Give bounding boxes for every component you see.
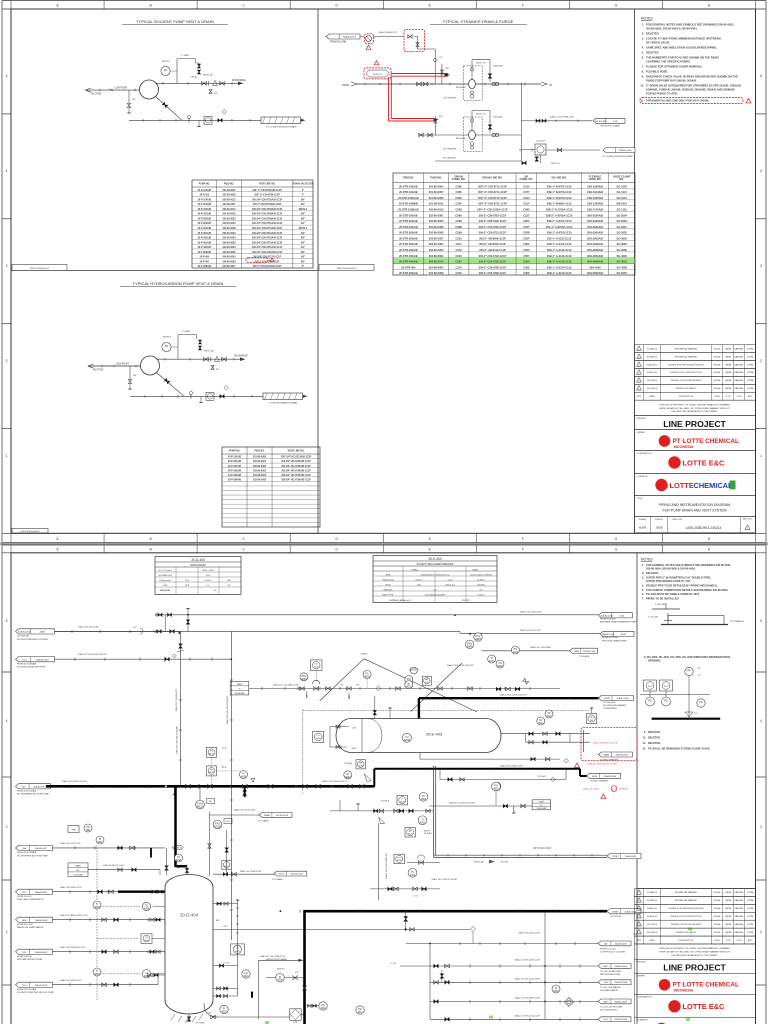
red cloud in pump table row 16 xyxy=(246,258,268,263)
svg-text:20A-80-2104: 20A-80-2104 xyxy=(602,633,615,636)
svg-text:4054: 4054 xyxy=(144,909,150,911)
page 2 drawing border frame xyxy=(11,553,756,1024)
strainer diamond symbol bottom right xyxy=(565,998,574,1007)
svg-text:NOTE 8: NOTE 8 xyxy=(163,337,172,339)
svg-text:C005: C005 xyxy=(456,202,463,206)
svg-text:15-JAN-24: 15-JAN-24 xyxy=(647,891,658,894)
svg-text:REVISED AS MARKED: REVISED AS MARKED xyxy=(675,899,698,902)
svg-text:TO 20-L-20B WASTE: TO 20-L-20B WASTE xyxy=(600,986,621,989)
svg-text:20A-80-0008: 20A-80-0008 xyxy=(615,1000,628,1003)
green tick marks xyxy=(688,928,692,931)
svg-text:TG: TG xyxy=(498,662,502,665)
svg-text:C057: C057 xyxy=(523,225,530,229)
svg-text:203-80-0004: 203-80-0004 xyxy=(222,237,236,240)
svg-text:FOR N2 PURGE TO ATM.: FOR N2 PURGE TO ATM. xyxy=(646,92,678,96)
svg-text:4008: 4008 xyxy=(277,980,283,982)
svg-text:G: G xyxy=(615,547,618,551)
svg-text:C058: C058 xyxy=(523,265,530,269)
svg-text:20-80-888: 20-80-888 xyxy=(235,693,246,695)
svg-text:JYKIM: JYKIM xyxy=(747,356,754,358)
svg-text:20B-2"-HC-111-1C1P: 20B-2"-HC-111-1C1P xyxy=(520,630,541,632)
svg-text:-0.35: -0.35 xyxy=(448,579,454,581)
svg-text:TI: TI xyxy=(421,819,424,822)
flare ref line upper xyxy=(209,814,259,816)
svg-text:FC: FC xyxy=(365,673,369,676)
svg-text:HSLIM: HSLIM xyxy=(714,388,721,390)
hydrocarbon drain header xyxy=(263,393,303,400)
svg-text:200"-3/4"-HC-6731A/B-1C1P: 200"-3/4"-HC-6731A/B-1C1P xyxy=(281,456,312,459)
svg-text:1/2": 1/2" xyxy=(340,685,344,687)
svg-text:OPE: OPE xyxy=(185,585,190,587)
flare header line xyxy=(482,650,570,652)
svg-text:20-P-201A/B: 20-P-201A/B xyxy=(228,460,242,463)
svg-text:204-80-0002: 204-80-0002 xyxy=(222,241,236,244)
svg-text:SOLVENT REFINING COLUMN: SOLVENT REFINING COLUMN xyxy=(17,639,48,641)
drain sight glass box xyxy=(204,116,212,124)
svg-text:PI: PI xyxy=(99,838,102,841)
svg-text:200"-2"-C50-1100A-1C1P: 200"-2"-C50-1100A-1C1P xyxy=(477,208,508,212)
svg-text:C057: C057 xyxy=(523,219,530,223)
spec break on line xyxy=(140,628,143,634)
svg-text:NOTE: NOTE xyxy=(279,874,286,876)
svg-text:LI: LI xyxy=(145,972,147,975)
svg-text:20H-2034A/B: 20H-2034A/B xyxy=(587,225,603,229)
svg-text:20B-1"-N-6703-1C10: 20B-1"-N-6703-1C10 xyxy=(547,190,572,194)
svg-text:C014: C014 xyxy=(523,184,530,188)
svg-text:20-STR-100A/B: 20-STR-100A/B xyxy=(399,190,418,194)
spectacle blind closed xyxy=(251,992,253,998)
svg-text:ISSUED FOR HAZOP: ISSUED FOR HAZOP xyxy=(675,387,697,390)
svg-text:20H-3008A/B: 20H-3008A/B xyxy=(587,248,603,252)
svg-text:THIS DWG IS PROPERTY OF CLIENT: THIS DWG IS PROPERTY OF CLIENT. THE INFO… xyxy=(659,947,730,950)
svg-text:4051: 4051 xyxy=(97,842,103,844)
svg-text:203-2"-AB-9110-1C1P: 203-2"-AB-9110-1C1P xyxy=(479,248,506,252)
PI 4009 instrument xyxy=(419,792,428,801)
svg-text:401B: 401B xyxy=(497,666,503,668)
svg-text:C157: C157 xyxy=(523,213,530,217)
svg-text:C060: C060 xyxy=(523,208,530,212)
svg-text:20B-1"-N-1703A-1C10: 20B-1"-N-1703A-1C10 xyxy=(546,208,573,212)
red revision highlight pipe path xyxy=(391,73,448,75)
svg-text:AF12: AF12 xyxy=(209,771,215,774)
svg-text:20H-4008: 20H-4008 xyxy=(589,265,601,269)
thick feed drop from suction bus to drum xyxy=(174,786,177,867)
hc bottom drain line xyxy=(130,395,263,397)
svg-text:A288: A288 xyxy=(592,775,598,778)
svg-text:202-80-0008: 202-80-0008 xyxy=(222,228,236,230)
ref arrow W9 thick suction bus xyxy=(16,784,51,789)
svg-text:20-E-403: 20-E-403 xyxy=(428,557,441,561)
svg-text:200-3/4"-C50-6709A/B-1C1P: 200-3/4"-C50-6709A/B-1C1P xyxy=(252,217,283,220)
svg-text:C06B: C06B xyxy=(455,225,462,229)
svg-text:NOTES:: NOTES: xyxy=(641,17,654,21)
svg-text:ID x T-T (mm): ID x T-T (mm) xyxy=(158,570,171,572)
svg-text:TSB: TSB xyxy=(71,829,76,831)
svg-text:SANGMC: SANGMC xyxy=(734,931,744,934)
svg-text:STRAINER FILLING LINE ONLY FOR: STRAINER FILLING LINE ONLY FOR 20-P-100A… xyxy=(646,99,710,103)
svg-text:SUCTION DRUM: SUCTION DRUM xyxy=(600,1009,617,1011)
svg-text:SG-3006: SG-3006 xyxy=(616,242,627,246)
svg-text:C0H-1614A/B: C0H-1614A/B xyxy=(587,190,603,194)
svg-text:MTS VAPORIZING DRUM: MTS VAPORIZING DRUM xyxy=(17,958,42,961)
svg-text:20A-1 1/2"-WG2-: 20A-1 1/2"-WG2- xyxy=(583,788,600,791)
svg-text:20H-2034A/B: 20H-2034A/B xyxy=(587,213,603,217)
ref box DWG 200-80-004-1 xyxy=(12,265,67,271)
svg-text:4001: 4001 xyxy=(235,951,241,953)
thick riser to vessel top xyxy=(418,698,420,718)
svg-text:FI: FI xyxy=(555,987,558,990)
svg-text:4052: 4052 xyxy=(144,940,150,942)
TANK N2 supply box xyxy=(230,681,249,695)
svg-text:BY VENDOR: BY VENDOR xyxy=(443,158,456,160)
svg-text:NOTE 8: NOTE 8 xyxy=(162,61,171,63)
svg-text:PIPING TO BE INSTALLED:: PIPING TO BE INSTALLED: xyxy=(646,597,679,601)
svg-text:20A-1 1/2"-SO-1114-PP: 20A-1 1/2"-SO-1114-PP xyxy=(175,688,178,711)
svg-text:1"-VENT: 1"-VENT xyxy=(182,331,191,333)
ref arrow 20A-80-2009 from solvent drum pump xyxy=(16,657,55,662)
svg-text:JYKIM: JYKIM xyxy=(747,892,754,894)
svg-text:PG: PG xyxy=(699,701,703,704)
svg-text:19-JUN-20: 19-JUN-20 xyxy=(647,380,658,382)
svg-text:SURFACE AREA (m2): SURFACE AREA (m2) xyxy=(389,599,411,602)
svg-text:20A-4"-FL-1203-1C1P: 20A-4"-FL-1203-1C1P xyxy=(234,808,256,811)
svg-text:TI: TI xyxy=(491,657,494,660)
thick suction bus line xyxy=(46,785,374,788)
svg-text:OWNER: OWNER xyxy=(637,432,646,434)
svg-text:200-80-0012: 200-80-0012 xyxy=(429,208,444,212)
svg-text:C056: C056 xyxy=(456,184,463,188)
PI 4024 instrument xyxy=(408,868,417,877)
thick vent bus2 xyxy=(305,910,608,913)
svg-text:FI: FI xyxy=(223,1008,226,1011)
svg-text:15-JAN-24: 15-JAN-24 xyxy=(647,347,658,350)
N2 PCV valve red-clouded xyxy=(366,36,372,42)
svg-text:9.: 9. xyxy=(644,730,646,734)
page 2 notes column divider xyxy=(636,553,638,1024)
svg-text:NOTE 12: NOTE 12 xyxy=(173,847,183,849)
min flow bypass line xyxy=(259,959,303,961)
svg-text:20-STR-100BA/B: 20-STR-100BA/B xyxy=(398,208,419,212)
svg-text:P&IDS FOR PUMP 20-P-100A/B, 20: P&IDS FOR PUMP 20-P-100A/B, 200A/B. xyxy=(646,79,697,83)
svg-text:TO 20-D-307 MTS VAP: TO 20-D-307 MTS VAP xyxy=(600,1005,623,1008)
svg-text:20A-1 1/2"-BWH-1223-1C1P: 20A-1 1/2"-BWH-1223-1C1P xyxy=(60,914,88,917)
spectacle blind xyxy=(188,118,190,123)
svg-text:200-3/4"-HC-6733A/B-1C1P: 200-3/4"-HC-6733A/B-1C1P xyxy=(281,465,311,468)
svg-text:200-3/4"-C50-6712A/B-1C1P: 200-3/4"-C50-6712A/B-1C1P xyxy=(252,232,283,235)
svg-text:NOTE 5: NOTE 5 xyxy=(277,968,286,970)
svg-text:STB-0008: STB-0008 xyxy=(456,87,466,89)
svg-text:SANGMC: SANGMC xyxy=(734,899,744,902)
svg-text:C098: C098 xyxy=(456,219,463,223)
strainer 2 bypass loop xyxy=(471,111,473,131)
svg-text:20-STR-100HA/B: 20-STR-100HA/B xyxy=(398,196,419,200)
revision table xyxy=(635,345,756,353)
page 1 drawing border frame xyxy=(11,9,756,533)
svg-text:10%: 10% xyxy=(352,728,356,730)
svg-text:20A-80-2001: 20A-80-2001 xyxy=(33,785,46,788)
svg-text:APP.: APP. xyxy=(748,939,753,942)
svg-text:REV: REV xyxy=(637,940,642,942)
svg-text:20A-80-0008: 20A-80-0008 xyxy=(35,919,48,922)
svg-text:20-STR-300A/B: 20-STR-300A/B xyxy=(399,248,418,252)
svg-text:1.: 1. xyxy=(642,563,644,567)
svg-text:3: 3 xyxy=(6,264,8,268)
svg-text:NOTE 2A: NOTE 2A xyxy=(204,350,214,353)
svg-text:FLEXIBLE HOSE.: FLEXIBLE HOSE. xyxy=(646,70,668,74)
svg-text:CH'D: CH'D xyxy=(736,396,742,398)
svg-text:OUTER PIPE DESIGN CODE IS "CD": OUTER PIPE DESIGN CODE IS "CD". xyxy=(646,579,692,583)
svg-text:FROM 20-P-406: FROM 20-P-406 xyxy=(602,637,619,639)
svg-text:20A-1 1/2"-CA-1382-1C1B: 20A-1 1/2"-CA-1382-1C1B xyxy=(273,684,299,687)
svg-text:FQ: FQ xyxy=(210,769,213,771)
thick segment into vessel xyxy=(118,891,165,893)
svg-text:C215: C215 xyxy=(456,271,463,275)
strainer 1 bypass loop xyxy=(471,60,473,80)
svg-text:20-P-404: 20-P-404 xyxy=(200,256,210,259)
svg-text:2: 2 xyxy=(760,930,762,934)
svg-text:VAPORIZING DRUM: VAPORIZING DRUM xyxy=(600,973,620,976)
svg-text:204-80-0008: 204-80-0008 xyxy=(429,271,444,275)
svg-text:PUMP NO.: PUMP NO. xyxy=(229,450,241,452)
svg-text:20H-4003A/B: 20H-4003A/B xyxy=(587,254,603,258)
double jacketed pipe to flare xyxy=(434,854,607,856)
hc vent stub xyxy=(200,396,202,402)
svg-text:201-80-0011: 201-80-0011 xyxy=(223,204,237,206)
svg-text:DELETED.: DELETED. xyxy=(646,32,660,36)
svg-text:FROM 20-L-30: FROM 20-L-30 xyxy=(17,896,32,898)
svg-text:20-STR-300A/B: 20-STR-300A/B xyxy=(399,242,418,246)
svg-text:4: 4 xyxy=(760,169,762,173)
svg-text:SUCTION: SUCTION xyxy=(93,370,104,372)
svg-text:COVERING THE SPECIFIC PUMPS.: COVERING THE SPECIFIC PUMPS. xyxy=(646,60,691,64)
svg-text:JHKIM: JHKIM xyxy=(725,916,732,918)
svg-text:4004A: 4004A xyxy=(404,739,411,742)
svg-text:ISSUED FOR CONSTRUCTION: ISSUED FOR CONSTRUCTION xyxy=(671,372,702,374)
svg-text:3/4": 3/4" xyxy=(301,251,305,254)
svg-text:34.04 x 3000 x 25NOS: 34.04 x 3000 x 25NOS xyxy=(470,574,492,576)
vent valves with caps xyxy=(194,59,196,63)
svg-text:DCN: DCN xyxy=(726,940,731,942)
svg-text:TO FLARE: TO FLARE xyxy=(579,655,590,658)
svg-text:2.: 2. xyxy=(642,32,644,36)
svg-text:SANGMC: SANGMC xyxy=(734,379,744,382)
svg-text:LINE PROJECT: LINE PROJECT xyxy=(663,419,726,429)
svg-text:72R82: 72R82 xyxy=(612,911,619,913)
svg-text:20H-5000A/B: 20H-5000A/B xyxy=(587,271,603,275)
svg-text:4023: 4023 xyxy=(493,789,499,791)
svg-text:194.2/-0.4: 194.2/-0.4 xyxy=(445,584,455,586)
svg-text:B.A.: B.A. xyxy=(222,765,227,769)
strainer unit 2 vendor dashed box xyxy=(463,117,482,151)
svg-text:REV. NO.: REV. NO. xyxy=(743,519,753,521)
AE 4006 boxed instrument xyxy=(405,828,416,838)
svg-text:NOTE 10: NOTE 10 xyxy=(551,163,561,165)
svg-text:OUTER PIPE 6" IN DIAMETER (2"x: OUTER PIPE 6" IN DIAMETER (2"x6" DOUBLE … xyxy=(646,575,711,579)
svg-text:202-80-0008: 202-80-0008 xyxy=(429,225,444,229)
svg-text:C054: C054 xyxy=(523,260,530,264)
check valve and block valve xyxy=(202,81,207,85)
valve row line upper xyxy=(330,810,434,812)
svg-text:TO 20-D-30 MP FEED: TO 20-D-30 MP FEED xyxy=(600,971,622,973)
svg-text:LOW POINT: LOW POINT xyxy=(116,363,129,365)
svg-text:20-P-403A/B: 20-P-403A/B xyxy=(198,251,212,254)
svg-text:5: 5 xyxy=(760,74,762,78)
svg-text:FLANGE FOR STRAINER COVER REMO: FLANGE FOR STRAINER COVER REMOVAL. xyxy=(646,65,703,69)
svg-text:THE WRITTEN PERMISSION OF THE: THE WRITTEN PERMISSION OF THE OWNER. xyxy=(671,411,718,413)
svg-text:FV: FV xyxy=(539,719,543,722)
svg-text:20A-80-0003: 20A-80-0003 xyxy=(35,984,48,987)
svg-text:240/190: 240/190 xyxy=(477,584,486,586)
svg-text:20B-1"-A-0120-1C10: 20B-1"-A-0120-1C10 xyxy=(547,260,572,264)
FO paddle flag xyxy=(379,817,385,824)
svg-text:3/4": 3/4" xyxy=(132,99,136,101)
svg-text:204-80-0004: 204-80-0004 xyxy=(429,265,444,269)
svg-text:20A-80-0005: 20A-80-0005 xyxy=(615,942,628,945)
svg-text:1/2": 1/2" xyxy=(208,1013,212,1015)
svg-text:4005: 4005 xyxy=(241,777,247,779)
svg-text:SG-3008: SG-3008 xyxy=(616,248,627,252)
NOTE 11 hexagon red-clouded xyxy=(366,70,389,77)
svg-text:FROM 20-P-407: FROM 20-P-407 xyxy=(600,619,617,621)
svg-text:REVISED AS MARKED: REVISED AS MARKED xyxy=(675,355,698,358)
svg-text:TO HYDROCARBON DRAIN: TO HYDROCARBON DRAIN xyxy=(269,402,298,405)
svg-text:13.5/F.V.: 13.5/F.V. xyxy=(477,579,486,581)
svg-text:2100 x 3200: 2100 x 3200 xyxy=(202,570,215,572)
svg-text:JHKIM: JHKIM xyxy=(725,892,732,894)
svg-text:MATERIAL: MATERIAL xyxy=(160,589,171,592)
svg-text:12.: 12. xyxy=(642,747,646,751)
riser with capped vent valves xyxy=(164,615,166,632)
red clouded WRC header detail xyxy=(581,728,637,761)
svg-text:PG: PG xyxy=(694,713,697,715)
svg-text:C033: C033 xyxy=(523,248,530,252)
svg-text:204-80-0004: 204-80-0004 xyxy=(222,246,236,249)
svg-text:VOLUME (m3): VOLUME (m3) xyxy=(158,575,172,577)
N 4016 instrument xyxy=(220,1005,228,1013)
svg-text:20B-1"-N-6904-1C10: 20B-1"-N-6904-1C10 xyxy=(547,202,572,206)
refrigeration baseline xyxy=(652,718,721,720)
svg-text:F: F xyxy=(522,547,524,551)
svg-text:PUMP NO.: PUMP NO. xyxy=(199,183,211,185)
svg-text:TYPICAL HYDROCARBON PUMP VENT: TYPICAL HYDROCARBON PUMP VENT & DRAIN xyxy=(133,281,224,286)
svg-text:DWN: DWN xyxy=(714,940,720,942)
svg-text:1 1/2": 1 1/2" xyxy=(391,963,397,965)
svg-text:FQ: FQ xyxy=(244,972,248,975)
svg-text:20-P-204A/B: 20-P-204A/B xyxy=(198,227,212,230)
svg-text:200"-2"-C50-6706-1C1P: 200"-2"-C50-6706-1C1P xyxy=(254,195,280,197)
svg-text:202-80-0005: 202-80-0005 xyxy=(429,219,444,223)
strainer 1 body oval on line xyxy=(469,79,476,88)
svg-text:DATE: DATE xyxy=(649,939,655,942)
svg-text:20A-1 1/2"-SO-1114-1C1P-PP: 20A-1 1/2"-SO-1114-1C1P-PP xyxy=(78,653,107,656)
left instrument column xyxy=(84,824,92,832)
svg-text:TO WRC HEADER: TO WRC HEADER xyxy=(590,780,609,783)
svg-text:PP: PP xyxy=(687,670,691,673)
svg-text:20-STR-400A/B: 20-STR-400A/B xyxy=(399,260,418,264)
svg-text:200-4"-C50-6704A/B-1C1P: 200-4"-C50-6704A/B-1C1P xyxy=(253,203,282,206)
svg-text:T2P BRANCH: T2P BRANCH xyxy=(730,620,744,623)
svg-text:TO WRC HEADER: TO WRC HEADER xyxy=(600,758,619,761)
svg-text:20B-1"-A-0111-1C10: 20B-1"-A-0111-1C10 xyxy=(547,242,572,246)
svg-text:LOTTE E&C: LOTTE E&C xyxy=(683,1002,726,1011)
left vertical with label xyxy=(378,823,380,900)
svg-text:203-80-0007: 203-80-0007 xyxy=(429,236,444,240)
ref arrow 20A-80-2008 line to solvent refining column xyxy=(16,629,55,634)
svg-text:TO 20-F-401: TO 20-F-401 xyxy=(17,636,30,638)
svg-text:PROJECT: PROJECT xyxy=(637,962,648,964)
svg-text:8.: 8. xyxy=(642,70,644,74)
svg-text:C059: C059 xyxy=(523,271,530,275)
svg-text:HSLIM: HSLIM xyxy=(714,364,721,366)
svg-text:NOTE 9: NOTE 9 xyxy=(299,209,308,211)
pump discharge line xyxy=(156,82,244,84)
svg-text:200"-2"-C50-6715-1C1P: 200"-2"-C50-6715-1C1P xyxy=(478,196,507,200)
svg-text:200-80-0012: 200-80-0012 xyxy=(222,209,236,211)
svg-text:20-D-404: 20-D-404 xyxy=(180,913,199,918)
svg-text:20A-1"-HC-1213-1C1P-HC: 20A-1"-HC-1213-1C1P-HC xyxy=(385,853,388,879)
proprietary note xyxy=(635,400,756,415)
PG 4022 boxed xyxy=(394,854,405,864)
svg-text:DWN: DWN xyxy=(714,396,720,398)
svg-text:3/4": 3/4" xyxy=(301,217,305,220)
svg-text:20A-2"-SOL-2601-31P-HC: 20A-2"-SOL-2601-31P-HC xyxy=(62,780,88,783)
svg-text:C4TC: C4TC xyxy=(603,1019,609,1021)
svg-text:NOTE 3A: NOTE 3A xyxy=(474,861,484,864)
svg-text:DISCHARGE: DISCHARGE xyxy=(232,79,246,82)
main line valves xyxy=(417,82,422,86)
svg-text:20A-1 1/2"-HC-8834-1C1P: 20A-1 1/2"-HC-8834-1C1P xyxy=(515,997,541,1000)
svg-text:20A-4"-FL-1203-33A7: 20A-4"-FL-1203-33A7 xyxy=(530,646,552,649)
svg-text:20-80-888: 20-80-888 xyxy=(73,875,84,877)
hc suction drain valve xyxy=(129,366,131,379)
svg-text:20B-1"-N-6702-1C10: 20B-1"-N-6702-1C10 xyxy=(547,184,572,188)
svg-text:200-80-012B: 200-80-012B xyxy=(276,815,289,817)
svg-text:HSLIM: HSLIM xyxy=(714,932,721,934)
hc pump suction line xyxy=(88,365,141,367)
ref box DWG 200-80-024-3 xyxy=(12,528,48,533)
svg-text:METHANE DRAIN TRANSFER PUMP: METHANE DRAIN TRANSFER PUMP xyxy=(600,621,637,624)
ref arrow 20A-80-0007 top suction line xyxy=(16,845,53,850)
svg-text:11.: 11. xyxy=(640,99,644,103)
hc check and block valves xyxy=(204,357,209,361)
svg-text:SANGMC: SANGMC xyxy=(734,923,744,926)
thick stub at x244 xyxy=(244,786,246,797)
feed nozzle valve pairs xyxy=(152,890,156,894)
svg-text:(MIN FLOW BYPASS): (MIN FLOW BYPASS) xyxy=(266,958,287,961)
valves on bottom lines xyxy=(434,964,439,968)
flare line to top boxes xyxy=(156,614,598,616)
svg-text:DISCHARGE: DISCHARGE xyxy=(234,355,248,358)
svg-text:C014: C014 xyxy=(523,202,530,206)
equipment table 20-E-403 SOLVENT RECLAIMER REBOILER xyxy=(373,556,497,603)
svg-text:THE WRITTEN PERMISSION OF THE: THE WRITTEN PERMISSION OF THE OWNER. xyxy=(671,955,718,957)
LT standpipe right of vessel xyxy=(237,900,239,996)
svg-text:20B-80-2108: 20B-80-2108 xyxy=(583,651,596,653)
svg-text:20-STR-200A/B: 20-STR-200A/B xyxy=(399,213,418,217)
svg-text:C012: C012 xyxy=(456,248,463,252)
svg-text:20A-1 1/2"-HC-1213-1C1P: 20A-1 1/2"-HC-1213-1C1P xyxy=(515,1014,541,1017)
svg-text:PG: PG xyxy=(664,700,668,703)
svg-text:TYPICAL SOLVENT PUMP VENT & DR: TYPICAL SOLVENT PUMP VENT & DRAIN xyxy=(136,19,214,24)
svg-text:SG-1011: SG-1011 xyxy=(617,190,628,194)
svg-text:20-P-101A/B: 20-P-101A/B xyxy=(228,456,242,459)
svg-text:5.: 5. xyxy=(642,51,644,55)
svg-text:PI: PI xyxy=(422,795,425,798)
svg-text:1/2": 1/2" xyxy=(133,627,137,629)
ref box DWG 200-80-004-2 xyxy=(319,265,374,271)
svg-text:PSH: PSH xyxy=(197,803,202,806)
svg-text:TO 20-E-40: TO 20-E-40 xyxy=(610,916,622,918)
